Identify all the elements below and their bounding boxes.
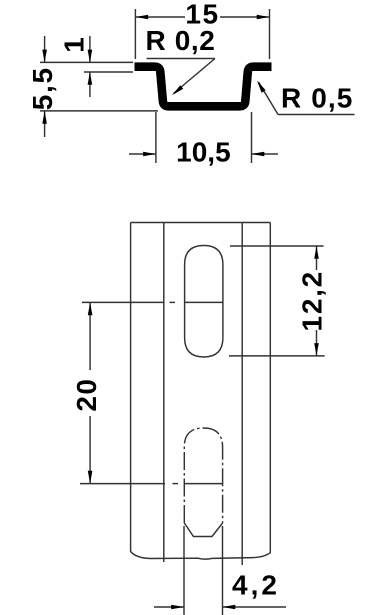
arrowheads dim 20 <box>88 302 93 315</box>
svg-text:R 0,5: R 0,5 <box>281 82 353 113</box>
svg-text:4,2: 4,2 <box>232 570 280 601</box>
leader R 0,5 diagonal <box>259 82 279 115</box>
arrowheads dim 1 <box>88 50 93 63</box>
svg-text:20: 20 <box>71 378 102 412</box>
rail cross-section profile <box>135 67 272 107</box>
dim 4,2 extension right <box>222 526 224 615</box>
front view right bend line <box>241 223 243 566</box>
arrowheads dim 5,5 <box>42 50 47 63</box>
dim 12,2 dimension line <box>316 246 318 270</box>
arrowhead R 0,5 <box>257 81 266 93</box>
svg-text:10,5: 10,5 <box>176 137 231 168</box>
dim 5,5 arrow tails <box>44 36 46 62</box>
svg-text:R 0,2: R 0,2 <box>146 25 216 56</box>
dim 10,5 extension line right <box>251 112 253 163</box>
front view top edge <box>131 222 271 224</box>
slot 2 bottom chamfer <box>184 523 222 537</box>
ext line flange bottom (for 1) <box>84 71 133 73</box>
dim 4,2 extension left <box>183 526 185 615</box>
leader R 0,2 underline <box>147 58 216 60</box>
dim 1 arrow tails <box>89 36 91 62</box>
ext line profile bottom (for 5,5) <box>40 110 158 112</box>
dim 15 dimension line <box>135 16 185 18</box>
arrowheads dim 4,2 <box>171 605 184 610</box>
slot 2 centerline horizontal / dim 20 bottom extension <box>80 483 165 485</box>
arrowheads dim 10,5 <box>143 152 156 157</box>
dim 15 extension line right <box>269 9 271 59</box>
arrowhead R 0,2 <box>172 85 183 95</box>
slot 1 centerline horizontal / dim 20 top extension <box>82 301 164 303</box>
svg-text:5,5: 5,5 <box>27 66 58 110</box>
slot 1 outline <box>185 246 223 358</box>
arrowheads dim 12,2 <box>314 246 319 259</box>
front view left bend line <box>163 223 165 563</box>
svg-text:12,2: 12,2 <box>296 270 327 331</box>
slot 2 outline <box>184 428 222 523</box>
dim 12,2 bottom extension <box>229 355 325 357</box>
dim 10,5 arrow tails <box>129 153 156 155</box>
arrowheads dim 15 <box>135 15 148 20</box>
ext line top surface (for 1 and 5,5) <box>40 61 133 63</box>
dim 20 dimension line <box>89 302 91 370</box>
front view left outer edge <box>130 223 132 553</box>
front view right outer edge <box>269 223 271 554</box>
leader R 0,2 diagonal <box>174 59 216 94</box>
leader R 0,5 underline <box>278 114 355 116</box>
dim 4,2 arrow tails <box>154 606 184 608</box>
dim 10,5 extension line left <box>155 112 157 163</box>
break line bottom <box>131 552 271 560</box>
dim 15 extension line left <box>134 9 136 59</box>
dim 12,2 top extension <box>230 245 324 247</box>
svg-text:1: 1 <box>58 37 89 53</box>
